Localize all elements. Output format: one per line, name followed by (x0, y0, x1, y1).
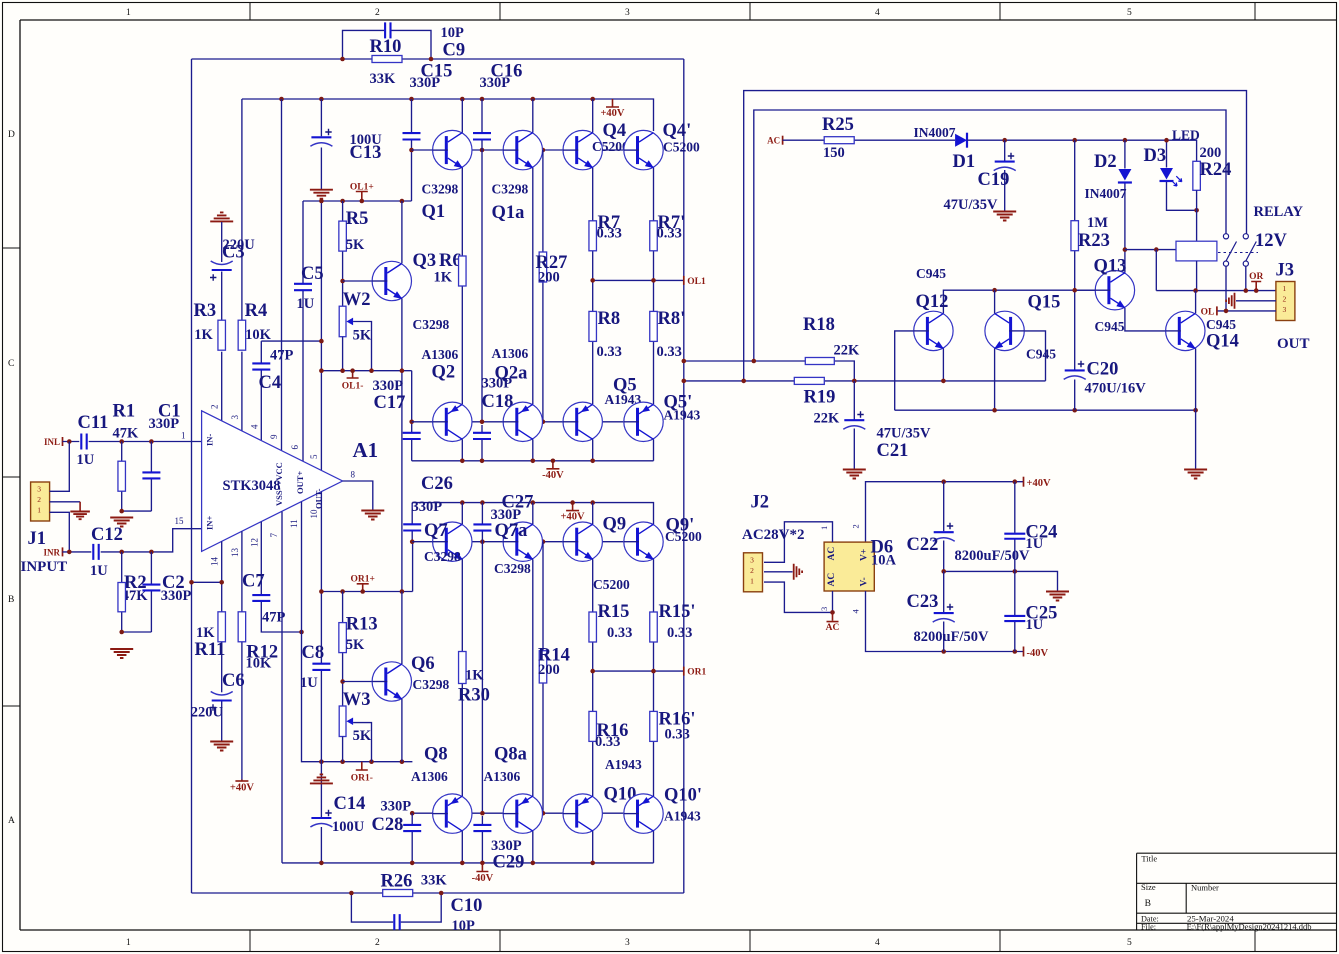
capacitor C28 (403, 825, 421, 831)
svg-text:1U: 1U (297, 296, 315, 312)
connector J3 (1276, 282, 1295, 321)
wire R2/C2 bottom (122, 631, 152, 633)
svg-text:330P: 330P (381, 799, 412, 815)
wire C4 link (261, 340, 321, 342)
svg-text:Q8: Q8 (424, 745, 448, 765)
wire J1 pin2 to ground (50, 501, 81, 503)
svg-text:0.33: 0.33 (667, 625, 692, 641)
svg-text:C21: C21 (877, 441, 909, 461)
wire C9 loop (343, 30, 385, 59)
wire Q7 collector (461, 503, 463, 524)
wire coil bottom (1196, 261, 1198, 291)
capacitor C1 column (150, 442, 152, 473)
junction dot C7 wire (299, 630, 304, 635)
svg-text:VSS- +VCC: VSS- +VCC (274, 462, 284, 506)
ground flipped above C14 (310, 774, 333, 783)
resistor R12 (238, 612, 246, 642)
svg-text:3: 3 (750, 555, 754, 564)
svg-text:OR: OR (1249, 272, 1263, 282)
wire OR1 sense y=671.1 (593, 670, 684, 672)
wire J3 pin3 OL (1217, 310, 1276, 312)
junction dots +40 rail (941, 479, 946, 484)
resistor R16' (650, 711, 658, 741)
svg-text:R25: R25 (822, 115, 854, 135)
svg-text:Q7a: Q7a (495, 521, 528, 541)
resistor R4 (238, 320, 246, 350)
svg-text:12: 12 (250, 538, 260, 547)
svg-text:B: B (8, 595, 14, 605)
connector J1 (31, 482, 50, 521)
wire INL to op-amp pin1 (63, 441, 80, 443)
svg-text:Q6: Q6 (411, 654, 435, 674)
junction dot Q6 base node (340, 679, 345, 684)
capacitor C6 electrolytic flipped (212, 699, 232, 701)
junction dots D2 D3 (1164, 138, 1169, 143)
svg-text:5K: 5K (353, 728, 372, 744)
wire Q13 base (1075, 289, 1095, 291)
wire base row y=813.2 (412, 812, 623, 814)
svg-text:15: 15 (175, 516, 185, 526)
transistor Q6 (372, 662, 411, 701)
capacitor C2 (142, 585, 160, 591)
wire Q6 base (343, 681, 372, 683)
power port +40V below R12 (235, 780, 248, 782)
capacitor C14 electrolytic (311, 817, 331, 819)
ground symbol below C13 (310, 190, 333, 199)
svg-text:D2: D2 (1094, 152, 1117, 172)
svg-text:+40V: +40V (561, 512, 585, 523)
svg-text:8200uF/50V: 8200uF/50V (914, 629, 989, 645)
svg-text:J1: J1 (28, 529, 47, 549)
resistor R14 column (542, 542, 544, 651)
capacitor C5 column pin6 (302, 201, 304, 283)
svg-text:Size: Size (1141, 882, 1156, 892)
junction dots y=671.1 (590, 669, 595, 674)
wire Q13 collector / D2 node (1124, 250, 1126, 273)
svg-text:C5200: C5200 (663, 140, 700, 155)
svg-text:13: 13 (230, 548, 240, 558)
svg-text:4: 4 (250, 424, 260, 429)
capacitor C17 (403, 433, 421, 439)
svg-text:R5: R5 (346, 209, 369, 229)
svg-text:4: 4 (875, 8, 880, 18)
svg-text:INR: INR (43, 547, 60, 557)
transistor Q7a (503, 522, 542, 561)
svg-text:INL: INL (44, 437, 60, 447)
junction dots C9/R10 (340, 57, 345, 62)
ground right end (1184, 470, 1207, 479)
svg-text:V+: V+ (860, 549, 870, 561)
wire output rail1 y=460.8 (412, 460, 654, 462)
capacitor C20 electrolytic (1065, 369, 1085, 371)
resistor R3 (218, 320, 226, 350)
port AC input (782, 136, 784, 145)
svg-text:C945: C945 (1026, 347, 1056, 362)
svg-text:1: 1 (750, 576, 754, 585)
power port +40V rail2 (566, 503, 579, 511)
svg-text:A1943: A1943 (664, 809, 701, 824)
svg-text:200: 200 (538, 662, 560, 678)
wire coil jog down to pin1 line (1155, 250, 1157, 291)
resistor R6 (459, 256, 467, 286)
diode D1 IN4007 (955, 134, 967, 147)
wire INR to op-amp pin15 (63, 551, 92, 553)
svg-text:IN+: IN+ (205, 516, 215, 530)
capacitor C29 (473, 825, 491, 831)
svg-text:C5200: C5200 (665, 529, 702, 544)
svg-text:R4: R4 (245, 301, 268, 321)
wire bottom feedback (192, 892, 684, 894)
junction dots INL wire (67, 439, 72, 444)
R3/C3 column (210, 212, 233, 221)
svg-text:22K: 22K (834, 343, 861, 359)
svg-text:W2: W2 (343, 290, 371, 310)
transistor Q13 (1095, 271, 1134, 310)
capacitor C4 column pin4 (260, 341, 262, 363)
svg-text:5: 5 (1127, 938, 1132, 948)
svg-text:330P: 330P (410, 75, 441, 91)
svg-text:R1: R1 (113, 402, 136, 422)
svg-text:200: 200 (1200, 145, 1222, 161)
svg-text:Q2: Q2 (432, 363, 456, 383)
svg-text:J3: J3 (1276, 261, 1295, 281)
wire Q14 emitter (1195, 348, 1197, 410)
wire outer rect (744, 91, 1247, 381)
svg-text:330P: 330P (480, 75, 511, 91)
junction dots R18 wire (682, 359, 687, 364)
wire W3 bottom (342, 737, 344, 762)
svg-text:AC: AC (827, 573, 837, 587)
svg-text:-40V: -40V (542, 470, 564, 481)
svg-text:1U: 1U (300, 675, 318, 691)
svg-text:File:: File: (1141, 923, 1156, 932)
wire Q4' emitter chain R7' R8' (653, 168, 655, 221)
resistor R1 (118, 461, 126, 491)
wire R26 bottom loop (351, 893, 393, 922)
junction dots y=201 (319, 199, 324, 204)
capacitor C22 electrolytic (934, 531, 954, 533)
junction dots -40 rail (941, 649, 946, 654)
power port OR1+ (357, 584, 369, 592)
junction dots 0V rail (941, 569, 946, 574)
svg-text:33K: 33K (421, 873, 448, 889)
svg-text:LED: LED (1172, 128, 1200, 143)
transistor Q2 (433, 402, 472, 441)
junction dots bottom rail (319, 861, 324, 866)
svg-text:IN-: IN- (205, 434, 215, 446)
svg-text:2: 2 (851, 524, 861, 528)
svg-text:A1306: A1306 (484, 769, 521, 784)
svg-text:330P: 330P (149, 416, 180, 432)
power port +40V top rail (606, 99, 619, 107)
ground at pin8 (361, 511, 384, 520)
port OR1 (683, 667, 685, 676)
capacitor C10 (394, 914, 399, 930)
svg-text:8: 8 (351, 470, 356, 480)
svg-text:5: 5 (1127, 8, 1132, 18)
capacitor C25 column (1014, 571, 1016, 615)
svg-text:C8: C8 (302, 643, 325, 663)
svg-text:22K: 22K (814, 411, 841, 427)
svg-text:J2: J2 (751, 493, 770, 513)
svg-text:330P: 330P (161, 588, 192, 604)
capacitor C4 (252, 363, 270, 369)
svg-text:C3298: C3298 (422, 182, 459, 197)
svg-text:Q15: Q15 (1028, 293, 1061, 313)
svg-text:A: A (8, 816, 15, 826)
ground 0V (1046, 592, 1069, 601)
resistor R8' (650, 311, 658, 341)
capacitor C9 (385, 22, 390, 38)
svg-text:Q9: Q9 (603, 515, 627, 535)
wire J3 pin1 line (1156, 290, 1276, 292)
svg-text:10K: 10K (246, 656, 273, 672)
svg-text:V-: V- (860, 577, 870, 586)
svg-text:2: 2 (210, 405, 220, 410)
svg-text:1: 1 (1283, 284, 1287, 293)
relay contacts (1223, 234, 1228, 239)
svg-text:C12: C12 (91, 525, 123, 545)
capacitor C7 (252, 595, 270, 601)
svg-text:+40V: +40V (600, 108, 624, 119)
wire Q8a collector (532, 831, 534, 863)
relay linkage dashed (1218, 252, 1258, 254)
capacitor C24 column (1014, 482, 1016, 533)
svg-text:1K: 1K (194, 327, 213, 343)
wire Q9 collector (592, 503, 594, 524)
ground below C19 (993, 212, 1016, 221)
transistor Q14 (1166, 311, 1205, 350)
capacitor C2 column (150, 552, 152, 584)
wire pin12 column C7 (260, 522, 262, 595)
wire R18 y=361 (684, 360, 806, 362)
wire pin10 column / C8 / C14 (320, 492, 322, 664)
wire D2 column (1124, 140, 1126, 168)
capacitor C27 (473, 524, 491, 530)
svg-text:11: 11 (289, 519, 299, 528)
resistor R26 (383, 890, 413, 897)
transistor Q3 (372, 261, 411, 300)
svg-text:0.33: 0.33 (595, 734, 620, 750)
wire Q5 collector (592, 439, 594, 461)
svg-text:R8: R8 (598, 309, 621, 329)
wire D1 cathode to R24 (967, 140, 1197, 161)
svg-text:E:\F(R\applMyDesign20241214.dd: E:\F(R\applMyDesign20241214.ddb (1187, 922, 1312, 932)
svg-text:Q10': Q10' (664, 786, 702, 806)
svg-text:INPUT: INPUT (21, 559, 68, 575)
svg-text:AC: AC (827, 547, 837, 561)
svg-text:C4: C4 (259, 373, 282, 393)
svg-text:Q3: Q3 (413, 251, 437, 271)
svg-text:C: C (8, 359, 14, 369)
transistor Q8a (503, 794, 542, 833)
svg-text:AC28V*2: AC28V*2 (742, 527, 805, 543)
svg-text:9: 9 (269, 434, 279, 439)
resistor R23 (1071, 221, 1079, 251)
resistor R1 column (121, 442, 123, 462)
port INR (62, 547, 64, 556)
resistor R13 column (342, 592, 344, 623)
transistor Q12 (914, 311, 953, 350)
transistor Q9' (624, 522, 663, 561)
svg-text:-40V: -40V (472, 873, 494, 884)
D6 pin3 stub (832, 591, 834, 612)
svg-text:C3: C3 (222, 243, 245, 263)
capacitor C5 (294, 284, 312, 290)
junction dots R19 wire (682, 379, 687, 384)
potentiometer W3 (339, 706, 346, 737)
wire Q7a emitter (532, 559, 534, 796)
capacitor C21 electrolytic (844, 419, 864, 421)
LED D3 column (1166, 140, 1168, 167)
junction dots top rail (279, 97, 284, 102)
wire Q1 emitter R6 chain (461, 168, 463, 256)
port +40V PSU (1023, 477, 1025, 487)
svg-text:R10: R10 (370, 37, 402, 57)
svg-text:R13: R13 (346, 615, 378, 635)
svg-text:1U: 1U (90, 563, 108, 579)
svg-text:1: 1 (126, 938, 131, 948)
capacitor C19 electrolytic (995, 161, 1015, 163)
svg-text:OR1-: OR1- (351, 774, 373, 784)
wire C26 column (411, 503, 413, 524)
svg-text:7: 7 (269, 533, 279, 538)
svg-text:470U/16V: 470U/16V (1085, 381, 1147, 397)
capacitor C3 electrolytic flipped (212, 269, 232, 271)
wire OL1 sense y=280.4 (593, 279, 684, 281)
svg-text:33K: 33K (370, 71, 397, 87)
capacitor C25 (1004, 616, 1025, 621)
transistor Q10 (563, 794, 602, 833)
junction dot Q3 base node (340, 279, 345, 284)
svg-text:Q1: Q1 (422, 202, 446, 222)
port INL (62, 437, 64, 446)
wire R24 to relay coil (1196, 190, 1198, 241)
svg-text:5K: 5K (346, 637, 365, 653)
capacitor C11 (81, 434, 86, 450)
power port OR1- (356, 762, 368, 770)
wire C28 column (411, 813, 413, 825)
wire tap to left loop (192, 581, 222, 583)
svg-text:C3298: C3298 (413, 317, 450, 332)
wire Q3 emitter / bias link (401, 299, 403, 592)
svg-text:1U: 1U (77, 452, 95, 468)
transistor Q4 (563, 130, 602, 169)
svg-text:0.33: 0.33 (657, 226, 682, 242)
transistor Q7 (433, 522, 472, 561)
svg-text:C10: C10 (451, 896, 483, 916)
svg-text:1U: 1U (1026, 617, 1044, 633)
resistor R11 (218, 612, 226, 642)
wire Q3 base (343, 280, 372, 282)
wire base row y=541.7 (412, 541, 623, 543)
svg-text:Q14: Q14 (1206, 332, 1239, 352)
junction dots y=370.7 (319, 368, 324, 373)
resistor R5 (339, 221, 347, 251)
svg-text:R18: R18 (803, 315, 835, 335)
svg-text:5K: 5K (346, 237, 365, 253)
wire J1 pin1 (50, 512, 70, 552)
svg-text:D: D (8, 130, 15, 140)
port -40V PSU (1023, 647, 1025, 657)
wire J3 pin2 ground (1236, 300, 1276, 302)
svg-text:R15: R15 (598, 602, 630, 622)
svg-text:10A: 10A (871, 553, 897, 569)
svg-text:OUT+: OUT+ (295, 471, 305, 494)
svg-text:AC: AC (826, 623, 840, 633)
resistor R13 (339, 623, 347, 653)
wire C26 column link (412, 542, 414, 592)
wire W2 bottom (342, 337, 344, 371)
resistor R27 (539, 252, 547, 282)
svg-text:5K: 5K (353, 328, 372, 344)
wire Q15 base to R19 node (1025, 331, 1046, 381)
svg-text:3: 3 (37, 485, 41, 494)
wire pin7 column VSS (281, 512, 283, 863)
wire rail2 y=502.6 (412, 503, 653, 524)
wire top feedback (192, 58, 684, 60)
svg-text:R11: R11 (195, 640, 226, 660)
svg-text:100U: 100U (332, 819, 365, 835)
bridge rectifier D6 (824, 542, 874, 591)
wire Q14 collector (1195, 291, 1197, 314)
svg-text:C26: C26 (421, 474, 453, 494)
svg-text:3: 3 (625, 938, 630, 948)
svg-text:C22: C22 (907, 535, 939, 555)
svg-text:10P: 10P (452, 918, 476, 934)
junction dots rail1 (460, 459, 465, 464)
ground column C13 / pin5 (320, 99, 322, 136)
svg-text:C13: C13 (350, 143, 382, 163)
wire Q12 base down (895, 331, 914, 410)
wire R19 y=380.9 (684, 380, 795, 382)
svg-text:C28: C28 (372, 815, 404, 835)
diode D2 IN4007 (1118, 169, 1131, 181)
junction dot Q7 base tap (410, 539, 415, 544)
svg-text:IN4007: IN4007 (1085, 186, 1127, 201)
capacitor C23 column (943, 571, 945, 612)
svg-text:2: 2 (37, 495, 41, 504)
svg-text:330P: 330P (373, 378, 404, 394)
resistor R23 column (1074, 140, 1076, 221)
junction dots base row 813.2 (410, 811, 415, 816)
wire right output loop vertical (683, 59, 685, 893)
wire Q12 emitter (942, 348, 944, 381)
power port OL1- (347, 371, 359, 378)
svg-text:1: 1 (181, 431, 186, 441)
svg-text:14: 14 (210, 557, 220, 567)
port OL1 (683, 276, 685, 285)
svg-text:+40V: +40V (230, 783, 254, 794)
svg-text:0.33: 0.33 (597, 344, 622, 360)
svg-text:6: 6 (290, 445, 300, 450)
wire W2 wiper (353, 322, 371, 371)
junction dot AC node (830, 610, 835, 615)
svg-text:C9: C9 (443, 41, 466, 61)
potentiometer W2 (339, 306, 346, 337)
svg-text:C17: C17 (374, 393, 406, 413)
transistor Q1a (503, 130, 542, 169)
svg-text:Q1a: Q1a (492, 203, 525, 223)
resistor R10 (372, 56, 402, 63)
capacitor C29 column (481, 816, 483, 825)
svg-text:C5200: C5200 (593, 577, 630, 592)
capacitor C24 (1004, 534, 1025, 539)
wire sense rail y=410.2 (895, 409, 1196, 411)
svg-text:2: 2 (375, 938, 380, 948)
svg-text:C11: C11 (78, 413, 109, 433)
capacitor C23 electrolytic (934, 612, 954, 614)
